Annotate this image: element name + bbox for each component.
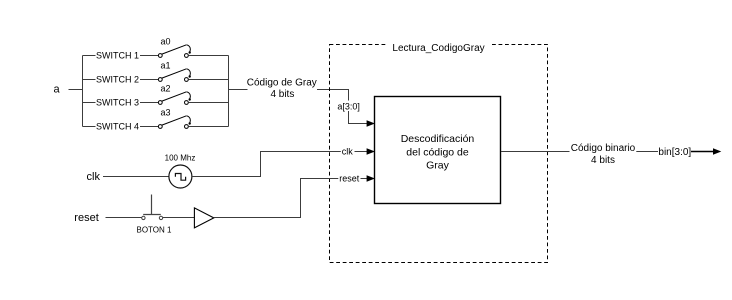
dashed module boundary Lectura_CodigoGray xyxy=(330,40,548,263)
svg-text:SWITCH 2: SWITCH 2 xyxy=(96,75,139,85)
net a2 label xyxy=(161,83,171,93)
svg-text:BOTON 1: BOTON 1 xyxy=(137,226,173,235)
wire reset left xyxy=(106,217,142,219)
svg-text:a: a xyxy=(54,83,61,95)
wire switch1 left xyxy=(83,55,159,57)
wire gray bus left xyxy=(229,89,248,91)
clock label clk xyxy=(87,171,101,183)
svg-text:bin[3:0]: bin[3:0] xyxy=(658,147,691,158)
arrowhead clk xyxy=(367,148,375,155)
port label bin[3:0] xyxy=(658,147,691,158)
svg-text:SWITCH 3: SWITCH 3 xyxy=(96,98,139,108)
pin label clk xyxy=(341,146,355,156)
svg-text:a[3:0]: a[3:0] xyxy=(337,102,360,112)
switch SW4 xyxy=(158,116,190,129)
arrowhead reset xyxy=(367,175,375,182)
wire switch3 left xyxy=(83,102,159,104)
svg-text:del código de: del código de xyxy=(406,146,469,158)
switch SW1 xyxy=(158,45,190,58)
svg-text:reset: reset xyxy=(339,174,360,184)
push button SW5 BOTON 1 xyxy=(142,195,163,220)
decoder block U1 xyxy=(375,97,501,204)
wire binary output xyxy=(501,151,570,153)
svg-text:Código de Gray: Código de Gray xyxy=(247,77,317,88)
svg-text:Descodificación: Descodificación xyxy=(401,133,475,145)
wire gray bus to block xyxy=(317,90,367,124)
svg-text:clk: clk xyxy=(87,171,101,183)
svg-text:reset: reset xyxy=(74,212,98,224)
wire a stub xyxy=(69,89,83,91)
switch SW2 xyxy=(158,69,190,82)
net a1 label xyxy=(161,60,171,70)
net a0 label xyxy=(161,36,171,46)
switch SW1 label SWITCH 1 xyxy=(96,51,139,61)
node a label xyxy=(54,83,61,95)
reset label xyxy=(74,212,98,224)
clock value label 100 Mhz xyxy=(165,154,196,163)
wire clk left xyxy=(103,176,169,178)
wire switch4 left xyxy=(83,126,159,128)
svg-text:SWITCH 4: SWITCH 4 xyxy=(96,122,139,132)
clock source V1 100 Mhz xyxy=(169,165,192,188)
wire reset pin stub xyxy=(361,178,368,180)
svg-text:4 bits: 4 bits xyxy=(591,155,615,166)
switch SW2 label SWITCH 2 xyxy=(96,75,139,85)
wire right rail xyxy=(228,56,230,127)
module label Lectura_CodigoGray xyxy=(392,43,484,54)
svg-text:Gray: Gray xyxy=(426,159,450,171)
button label BOTON 1 xyxy=(137,226,173,235)
net label Codigo de Gray 4 bits xyxy=(247,77,317,99)
wire switch2 left xyxy=(83,79,159,81)
svg-text:a1: a1 xyxy=(161,60,171,70)
switch SW4 label SWITCH 4 xyxy=(96,122,139,132)
net label Codigo binario 4 bits xyxy=(571,143,636,166)
wire clk pin stub xyxy=(355,151,368,153)
wire left rail xyxy=(82,56,84,127)
wire clk to block xyxy=(192,152,342,177)
wire switch4 right xyxy=(188,126,228,128)
switch SW3 xyxy=(158,92,190,105)
wire switch2 right xyxy=(188,79,228,81)
switch SW3 label SWITCH 3 xyxy=(96,98,139,108)
buffer U2 xyxy=(194,208,213,228)
wire reset to block xyxy=(214,179,339,218)
svg-text:a0: a0 xyxy=(161,36,171,46)
net a3 label xyxy=(161,107,171,117)
wire to bin label xyxy=(636,151,658,153)
wire switch1 right xyxy=(188,55,228,57)
svg-text:a3: a3 xyxy=(161,107,171,117)
pin label reset xyxy=(338,173,361,183)
arrowhead bin output xyxy=(713,148,721,155)
svg-text:4 bits: 4 bits xyxy=(270,89,294,100)
svg-text:Código binario: Código binario xyxy=(571,143,636,154)
wire reset to buffer xyxy=(163,217,194,219)
pin label a[3:0] xyxy=(336,101,361,112)
svg-text:SWITCH 1: SWITCH 1 xyxy=(96,51,139,61)
svg-text:a2: a2 xyxy=(161,83,171,93)
arrowhead a[3:0] xyxy=(367,120,375,127)
svg-text:100 Mhz: 100 Mhz xyxy=(165,154,196,163)
svg-text:Lectura_CodigoGray: Lectura_CodigoGray xyxy=(392,43,484,54)
svg-text:clk: clk xyxy=(342,146,353,156)
wire bin output xyxy=(691,151,714,153)
wire switch3 right xyxy=(188,102,228,104)
decoder block text Descodificacion del codigo de Gray xyxy=(401,133,475,171)
